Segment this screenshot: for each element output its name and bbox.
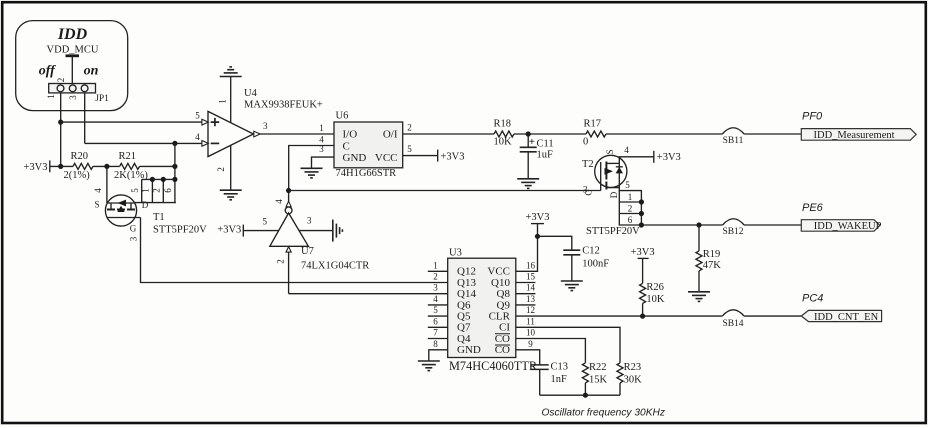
svg-text:G: G: [584, 189, 594, 196]
svg-text:R18: R18: [494, 118, 512, 129]
transistor T1 STT5PF20V: [93, 166, 207, 241]
capacitor C11 1uF: [520, 134, 554, 179]
svg-text:3: 3: [129, 236, 139, 241]
svg-text:2(1%): 2(1%): [64, 170, 91, 181]
net flag PC4 IDD_CNT_EN: [801, 293, 881, 323]
svg-text:PE6: PE6: [802, 202, 824, 214]
svg-text:U3: U3: [449, 248, 462, 259]
svg-text:GND: GND: [457, 344, 481, 356]
svg-text:C12: C12: [582, 246, 600, 257]
wire to op-amp +input: [61, 121, 203, 123]
wire R18 to R17: [514, 133, 586, 135]
svg-text:+3V3: +3V3: [631, 247, 655, 258]
svg-text:30K: 30K: [624, 374, 643, 385]
svg-text:R23: R23: [624, 362, 642, 373]
svg-text:U7: U7: [301, 246, 314, 257]
wire op-amp output to U6: [258, 133, 334, 135]
U3 right pin stubs: [516, 260, 536, 349]
svg-text:MAX9938FEUK+: MAX9938FEUK+: [244, 100, 323, 111]
svg-text:VCC: VCC: [487, 266, 510, 278]
svg-text:2: 2: [275, 259, 285, 264]
svg-text:U6: U6: [336, 111, 349, 122]
svg-text:47K: 47K: [703, 260, 722, 271]
svg-text:2: 2: [433, 272, 438, 282]
svg-text:+3V3: +3V3: [23, 162, 47, 173]
svg-text:JP1: JP1: [95, 94, 109, 104]
svg-text:I/O: I/O: [343, 129, 358, 141]
node: U7 output junction: [286, 188, 291, 193]
U4 positive supply pin 1: [217, 77, 230, 123]
svg-text:VCC: VCC: [375, 152, 398, 164]
svg-text:Q8: Q8: [497, 288, 511, 300]
svg-text:15: 15: [526, 272, 536, 282]
svg-text:1: 1: [433, 260, 438, 270]
svg-text:C11: C11: [537, 139, 554, 150]
wire U7 node to T2 gate: [289, 190, 601, 192]
ground (C11): [517, 179, 539, 189]
wire T2 box to SB12: [641, 224, 722, 226]
svg-text:4: 4: [93, 188, 103, 193]
svg-text:+3V3: +3V3: [441, 151, 465, 162]
svg-text:3: 3: [433, 283, 438, 293]
wire U7 pin3 to side ground: [299, 230, 333, 232]
svg-text:M74HC4060TTR: M74HC4060TTR: [449, 359, 538, 373]
svg-text:SB11: SB11: [723, 136, 744, 146]
resistor R26 10K: [640, 282, 665, 316]
transistor T2 STT5PF20V: [582, 145, 640, 237]
U3 pin names right: [487, 266, 510, 357]
wire R21 to node: [140, 165, 175, 167]
wire JP1 pin3 down: [84, 93, 86, 143]
svg-text:O/I: O/I: [383, 129, 398, 141]
node: junction C11: [526, 131, 531, 136]
svg-text:10K: 10K: [494, 136, 513, 147]
T2 drain pin box (pins 1,2,6): [619, 191, 644, 228]
wire T1 gate to U3 pin2: [141, 218, 448, 283]
capacitor C13 1nF: [531, 362, 568, 396]
svg-text:STT5PF20V: STT5PF20V: [586, 226, 640, 237]
svg-text:16: 16: [526, 260, 536, 270]
T1 drain pin ladder (pins 5,1,2,6): [130, 177, 177, 203]
svg-text:1: 1: [141, 188, 151, 193]
solder bridge SB14: [722, 310, 744, 329]
svg-text:74H1G66STR: 74H1G66STR: [336, 168, 397, 179]
svg-text:T2: T2: [582, 159, 594, 170]
svg-text:5: 5: [195, 111, 200, 121]
svg-text:on: on: [84, 64, 99, 79]
counter U3 M74HC4060TTR: [448, 248, 538, 373]
resistor R21: [114, 151, 148, 181]
ground (U6 pin3): [301, 168, 323, 178]
U4 negative supply pin 2: [216, 145, 231, 190]
svg-text:D: D: [142, 200, 149, 210]
svg-text:Q10: Q10: [491, 277, 510, 289]
node: junction R21/ladder: [172, 164, 177, 169]
power +3V3 (C12/VCC): [525, 212, 549, 237]
svg-text:3: 3: [263, 121, 268, 131]
svg-text:G: G: [130, 224, 137, 234]
svg-text:Q6: Q6: [457, 299, 471, 311]
analog switch U6 74H1G66STR: [319, 111, 412, 179]
svg-text:PF0: PF0: [802, 111, 823, 123]
power +3V3 (U6 pin5): [438, 150, 465, 163]
svg-text:5: 5: [625, 180, 630, 190]
U3 pin8 GND wire: [429, 350, 448, 361]
svg-text:off: off: [39, 64, 56, 79]
ground (U3 pin8): [418, 361, 440, 371]
svg-text:+3V3: +3V3: [525, 212, 549, 223]
svg-text:STT5PF20V: STT5PF20V: [153, 225, 207, 236]
svg-text:1: 1: [217, 99, 227, 104]
svg-text:3: 3: [307, 215, 312, 225]
svg-text:S: S: [605, 149, 615, 154]
node: junction T1 source: [104, 164, 109, 169]
svg-text:14: 14: [526, 283, 536, 293]
resistor R23 30K: [617, 362, 642, 395]
svg-text:Q4: Q4: [457, 333, 471, 345]
power +3V3 (U7 pin5): [217, 225, 278, 237]
svg-text:2: 2: [56, 78, 66, 83]
svg-text:Q5: Q5: [457, 311, 471, 323]
svg-text:S: S: [94, 199, 99, 209]
svg-text:10: 10: [526, 328, 536, 338]
svg-text:R17: R17: [584, 118, 602, 129]
op-amp U4 MAX9938FEUK+: [195, 88, 323, 156]
svg-text:7: 7: [433, 328, 438, 338]
svg-text:6: 6: [163, 188, 173, 193]
svg-text:4: 4: [274, 199, 284, 204]
wire U6 pin2 out: [403, 133, 494, 135]
solder bridge SB11: [722, 128, 744, 146]
svg-text:CO: CO: [495, 344, 510, 356]
svg-text:4: 4: [319, 134, 324, 144]
wire U6 pin5 to +3V3: [403, 155, 438, 157]
svg-text:6: 6: [433, 316, 438, 326]
svg-text:R19: R19: [703, 249, 721, 260]
net flag PE6 IDD_WAKEUP: [801, 202, 881, 232]
svg-text:2: 2: [152, 188, 162, 193]
wire T2 source to +3V3: [619, 157, 654, 164]
wire U3 pin9 to C13: [516, 350, 540, 365]
VDD_MCU stub: [66, 56, 80, 85]
svg-text:Q7: Q7: [457, 322, 471, 334]
svg-text:GND: GND: [343, 152, 367, 164]
svg-text:0: 0: [583, 136, 588, 147]
wire SB11 to flag: [744, 133, 801, 135]
node: junction R26/CLR: [640, 314, 645, 319]
jumper JP1: [46, 78, 109, 104]
svg-text:SB14: SB14: [722, 319, 743, 329]
svg-text:5: 5: [433, 305, 438, 315]
svg-text:1: 1: [46, 94, 56, 99]
resistor R20: [64, 151, 94, 181]
svg-text:74LX1G04CTR: 74LX1G04CTR: [301, 260, 369, 271]
wire U3 pin10 to R22: [516, 339, 586, 363]
svg-text:13: 13: [526, 294, 536, 304]
resistor R19 47K: [696, 225, 721, 292]
svg-text:IDD: IDD: [57, 26, 88, 43]
wire R17 to SB11: [606, 133, 722, 135]
power +3V3 (T2 source): [654, 151, 681, 163]
wire U3 pin12 CLR to SB14: [516, 315, 723, 317]
resistor R18: [494, 118, 514, 147]
svg-text:4: 4: [433, 294, 438, 304]
svg-text:3: 3: [68, 95, 78, 100]
svg-text:CI: CI: [499, 322, 510, 334]
svg-text:1: 1: [319, 123, 324, 133]
wire to op-amp -input: [85, 142, 203, 144]
U3 pin names left: [457, 266, 481, 357]
svg-text:11: 11: [526, 316, 535, 326]
svg-text:R22: R22: [589, 362, 607, 373]
rotated ground (U7 pin3): [333, 220, 343, 242]
svg-text:10K: 10K: [646, 294, 665, 305]
wire U6 pin4 (C): [289, 146, 334, 191]
svg-text:R21: R21: [119, 151, 137, 162]
svg-text:6: 6: [628, 215, 633, 225]
svg-text:D: D: [609, 191, 619, 198]
wire R20-R21: [93, 165, 120, 167]
svg-text:100nF: 100nF: [582, 259, 609, 270]
svg-text:12: 12: [526, 305, 535, 315]
svg-text:1uF: 1uF: [537, 150, 554, 161]
svg-text:9: 9: [528, 339, 533, 349]
resistor R17: [583, 118, 606, 147]
net flag PF0 IDD_Measurement: [801, 111, 916, 142]
svg-text:8: 8: [433, 339, 438, 349]
svg-text:2: 2: [407, 123, 412, 133]
svg-text:SB12: SB12: [722, 227, 743, 237]
U3 left pin stubs: [428, 260, 448, 349]
capacitor C12 100nF: [538, 236, 610, 281]
resistor R22 15K: [582, 362, 607, 395]
svg-text:R20: R20: [71, 151, 89, 162]
svg-text:4: 4: [195, 132, 200, 142]
svg-text:IDD_Measurement: IDD_Measurement: [814, 130, 895, 141]
svg-text:+: +: [529, 136, 535, 148]
svg-text:U4: U4: [244, 88, 258, 99]
power +3V3 (left): [23, 160, 73, 173]
wire JP1 pin1 down: [60, 93, 62, 166]
svg-text:+3V3: +3V3: [657, 152, 681, 163]
wire vertical node to -input: [174, 143, 176, 179]
svg-text:C: C: [343, 140, 350, 152]
svg-text:Q14: Q14: [457, 288, 476, 300]
svg-text:CLR: CLR: [489, 311, 511, 323]
svg-text:CO: CO: [495, 333, 510, 345]
inverter U7 74LX1G04CTR: [262, 191, 369, 294]
svg-text:C13: C13: [551, 362, 569, 373]
node: junction bottom bus: [583, 393, 588, 398]
svg-text:Q13: Q13: [457, 277, 476, 289]
svg-text:+3V3: +3V3: [217, 225, 241, 236]
wire bottom bus: [540, 394, 620, 396]
svg-text:IDD_CNT_EN: IDD_CNT_EN: [814, 312, 879, 323]
U3 pin16 VCC wire: [516, 236, 538, 271]
svg-text:VDD_MCU: VDD_MCU: [47, 45, 99, 56]
svg-text:4: 4: [624, 145, 629, 155]
wire U3 pin11 to R23: [516, 327, 620, 363]
svg-text:5: 5: [130, 188, 140, 193]
svg-text:Q12: Q12: [457, 266, 476, 278]
wire SB12 to flag: [744, 224, 801, 226]
wire U6 pin3 to ground: [312, 157, 335, 168]
node: junction R19: [696, 222, 701, 227]
inverted ground (U4 top): [220, 67, 242, 77]
svg-text:1: 1: [628, 192, 633, 202]
svg-text:T1: T1: [153, 212, 165, 223]
solder bridge SB12: [722, 219, 744, 237]
svg-text:Oscillator frequency 30KHz: Oscillator frequency 30KHz: [542, 407, 665, 418]
node: VCC junction: [535, 234, 540, 239]
svg-text:2: 2: [216, 167, 226, 172]
ground (R19): [688, 292, 710, 302]
ground (C12): [561, 281, 583, 291]
svg-text:R26: R26: [646, 282, 664, 293]
svg-text:IDD_WAKEUP: IDD_WAKEUP: [814, 221, 882, 232]
IDD enclosure box: [16, 21, 128, 111]
svg-text:5: 5: [262, 217, 267, 227]
node: junction on pin1 wire: [58, 120, 63, 125]
power +3V3 (R26): [631, 247, 655, 284]
ground (U4 bottom): [220, 190, 242, 200]
svg-text:15K: 15K: [589, 374, 608, 385]
svg-text:PC4: PC4: [802, 293, 823, 305]
wire U7 pin2 to U3 pin3: [289, 293, 448, 295]
svg-text:Q9: Q9: [497, 299, 511, 311]
node: junction -input / R21: [172, 141, 177, 146]
svg-text:2: 2: [628, 204, 633, 214]
svg-text:1nF: 1nF: [551, 374, 568, 385]
wire SB14 to flag: [744, 315, 801, 317]
svg-text:5: 5: [407, 144, 412, 154]
